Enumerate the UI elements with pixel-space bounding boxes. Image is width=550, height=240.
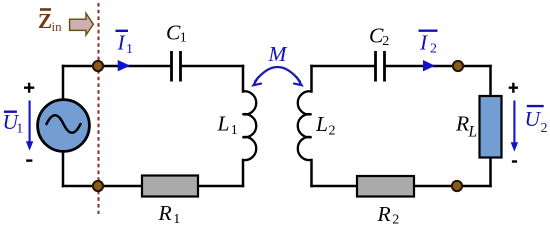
svg-text:1: 1	[16, 122, 23, 137]
svg-text:2: 2	[329, 124, 336, 139]
svg-text:L: L	[468, 124, 478, 141]
svg-text:I: I	[419, 31, 428, 55]
svg-text:Z: Z	[38, 9, 52, 33]
svg-text:2: 2	[541, 121, 548, 136]
svg-text:1: 1	[126, 42, 133, 57]
svg-text:M: M	[268, 42, 288, 66]
svg-text:in: in	[52, 19, 63, 34]
svg-text:U: U	[525, 107, 542, 131]
svg-text:R: R	[158, 201, 172, 225]
svg-text:2: 2	[382, 34, 389, 49]
svg-text:1: 1	[180, 31, 187, 46]
svg-text:I: I	[117, 31, 126, 55]
svg-text:R: R	[455, 111, 469, 135]
svg-text:1: 1	[173, 212, 180, 227]
svg-text:R: R	[377, 202, 391, 226]
svg-text:2: 2	[392, 213, 399, 228]
svg-text:L: L	[315, 112, 328, 136]
svg-text:1: 1	[231, 123, 238, 138]
svg-text:2: 2	[430, 42, 437, 57]
svg-text:L: L	[217, 111, 230, 135]
